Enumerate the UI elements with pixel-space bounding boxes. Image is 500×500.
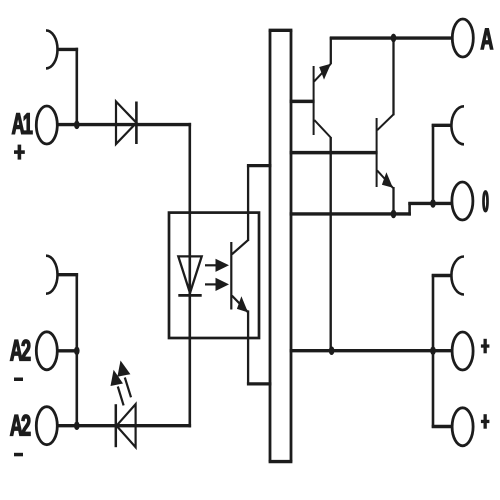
wire arc to A2 column [57,273,78,276]
junction dot A2 upper [74,347,80,356]
terminal + upper [452,332,473,370]
diode D1 triangle [116,102,136,145]
junction dot A1/bridge [74,121,80,130]
label + (A1) [14,145,25,160]
phototransistor base bar [230,242,232,310]
wire emitter rail from barrier [290,212,411,215]
junction dot + rail left [329,346,335,355]
wire arc to 0 column [432,124,452,127]
wire to + lower [432,425,453,428]
label A2 lower [10,415,30,436]
phototransistor emitter arrow [237,296,248,312]
optocoupler box U1 [169,213,259,338]
junction dot + rail right [430,346,436,355]
label - (A2 upper) [14,378,23,382]
wire down through optocoupler LED [189,123,192,428]
wire + column down [432,274,435,428]
label A [481,29,493,50]
opto coupling arrow 2 [205,278,229,291]
wire barrier to Q2 base [290,151,378,155]
wire jog up [408,202,411,216]
bridge contact arc left (A2) [46,256,58,294]
LED emission arrow 1 [111,370,124,406]
bridge contact arc top-left [46,30,58,68]
terminal 0 [452,182,473,220]
wire 0 column down [432,124,435,203]
transistor Q1 base bar [313,66,315,135]
isolation barrier block [269,30,293,461]
wire jog to terminal 0 [408,202,452,205]
wire collector up to barrier [247,166,249,241]
junction dot top rail [391,34,397,43]
transistor Q1 emitter lead [314,64,331,82]
opto LED cathode bar [178,294,201,297]
label A2 upper [10,340,30,361]
transistor Q2 emitter lead [377,170,393,187]
label 0 [484,191,488,211]
LED emission arrow 2 [117,361,131,398]
wire Q2 collector up to top rail [392,37,394,115]
terminal A2 upper [36,332,57,370]
label + lower [481,414,490,429]
label - (A2 lower) [14,453,23,457]
wire Q1 collector down to + rail [330,137,332,351]
junction dot A2 lower [74,421,80,430]
phototransistor collector lead [232,240,248,254]
phototransistor emitter lead [232,296,248,313]
wire top rail to terminal A [330,36,453,39]
wire arc to + column [432,274,452,277]
junction dot 0 branch [430,199,436,208]
wire emitter down to barrier [247,310,249,384]
transistor Q1 collector lead [314,120,330,138]
wire arc to A1 column [57,48,78,51]
terminal A1 [36,106,57,144]
wire bottom row to A2 [57,424,191,427]
label + upper [481,339,490,354]
transistor Q1 emitter arrow [319,64,331,80]
wire A2 upper to column [57,349,78,352]
transistor Q2 collector lead [377,114,393,130]
bridge contact arc right (+) [451,257,464,295]
wire barrier to Q1 base [290,100,315,104]
opto LED triangle [178,256,201,293]
opto coupling arrow 1 [205,259,229,272]
wire Q1 emitter up to top rail [330,37,332,64]
wire down A2 column [76,273,79,426]
transistor Q2 base bar [376,118,378,187]
bridge contact arc right (0) [451,106,464,144]
transistor Q2 emitter arrow [382,172,393,188]
diode D1 cathode bar [135,102,138,145]
wire down to A1 node [76,48,79,125]
wire Q2 emitter down to 0 rail [392,187,394,216]
terminal A2 lower [36,407,57,445]
junction dot Q2 emitter [391,210,397,219]
LED indicator cathode bar [115,404,118,447]
LED indicator triangle [117,404,136,447]
label A1 [12,113,32,134]
terminal + lower [452,408,473,446]
terminal A [452,19,473,57]
wire A1 row [57,123,191,126]
wire + rail [290,349,453,352]
